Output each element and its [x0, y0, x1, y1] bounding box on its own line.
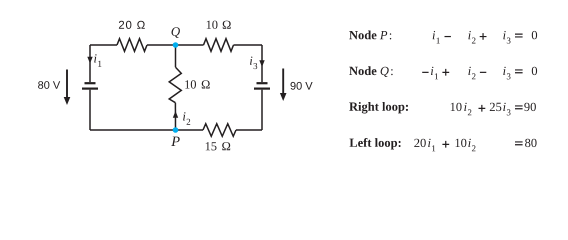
value label 20 ohm — [119, 21, 145, 29]
wire right branch lower — [261, 90, 263, 130]
term i1 — [433, 31, 435, 39]
wire right branch upper — [261, 45, 263, 82]
node label P — [171, 137, 180, 146]
term i2 — [468, 31, 470, 39]
equation line 4: Left loop — [350, 138, 537, 151]
current arrow i3 head — [259, 60, 264, 67]
node P junction dot — [173, 127, 179, 133]
label Node P: — [349, 31, 376, 40]
value label 15 ohm — [206, 142, 217, 150]
coefficient 20 — [414, 139, 426, 147]
coefficient 10 — [456, 139, 467, 147]
term i2 — [468, 139, 470, 147]
battery 80 V plates — [82, 83, 98, 88]
subscript 1 of i1 — [98, 61, 101, 67]
equation line 3: Right loop — [349, 102, 536, 115]
source label 90 V — [291, 82, 313, 90]
equation line 1: Node P — [349, 31, 537, 44]
node label Q — [172, 27, 180, 38]
wire top middle segment (through node Q) — [147, 44, 204, 46]
resistor 10 ohm zigzag (middle) — [169, 67, 181, 103]
coefficient 10 — [451, 103, 462, 111]
operator plus — [479, 105, 486, 112]
negative sign — [422, 72, 428, 73]
label Node Q: — [349, 66, 376, 75]
wire left branch upper — [89, 45, 91, 82]
term i3 — [503, 103, 505, 111]
equals sign — [515, 105, 523, 109]
current label i3 — [250, 57, 252, 65]
subscript 2 of i2 — [187, 119, 191, 125]
wire top-left segment — [90, 44, 117, 46]
value label 10 ohm (middle) — [185, 80, 196, 88]
equals sign — [515, 69, 523, 73]
current label i2 — [183, 112, 185, 120]
label Right loop: — [349, 102, 408, 114]
resistor 20 ohm zigzag (top left) — [117, 39, 147, 52]
term i2 — [468, 67, 470, 75]
node Q junction dot — [173, 42, 179, 48]
term i3 — [503, 31, 505, 39]
term i1 — [428, 139, 430, 147]
operator plus — [442, 141, 449, 148]
resistor 10 ohm zigzag (top right) — [204, 39, 234, 52]
wire bottom-left segment — [90, 129, 203, 131]
wire bottom-right segment — [236, 129, 262, 131]
voltage arrow 90 V — [280, 69, 287, 102]
wire middle branch lower — [174, 103, 176, 130]
operator plus — [442, 69, 449, 76]
equals sign — [515, 34, 523, 38]
equation line 2: Node Q — [349, 66, 537, 79]
operator minus — [445, 36, 451, 37]
wire top-right segment — [234, 44, 263, 46]
rhs 0 — [532, 31, 537, 39]
current arrow i1 head — [87, 57, 92, 64]
label Left loop: — [350, 138, 401, 150]
source label 80 V — [38, 81, 60, 89]
term i2 — [464, 103, 466, 111]
current arrow i2 head — [173, 111, 178, 118]
rhs 0 — [532, 67, 537, 75]
wire left branch lower — [89, 90, 91, 130]
term i3 — [503, 67, 505, 75]
coefficient 25 — [490, 103, 502, 111]
operator plus — [480, 33, 487, 40]
rhs 80 — [525, 139, 537, 147]
value label 10 ohm (top) — [207, 21, 218, 29]
subscript 3 of i3 — [254, 63, 258, 69]
resistor 15 ohm zigzag (bottom) — [203, 124, 236, 137]
operator minus — [480, 72, 486, 73]
voltage arrow 80 V — [64, 70, 71, 106]
current label i1 — [94, 54, 96, 62]
equals sign — [515, 141, 523, 145]
battery 90 V plates — [254, 83, 270, 88]
term i1 — [431, 67, 433, 75]
rhs 90 — [524, 103, 536, 111]
wire middle branch upper — [175, 45, 177, 67]
